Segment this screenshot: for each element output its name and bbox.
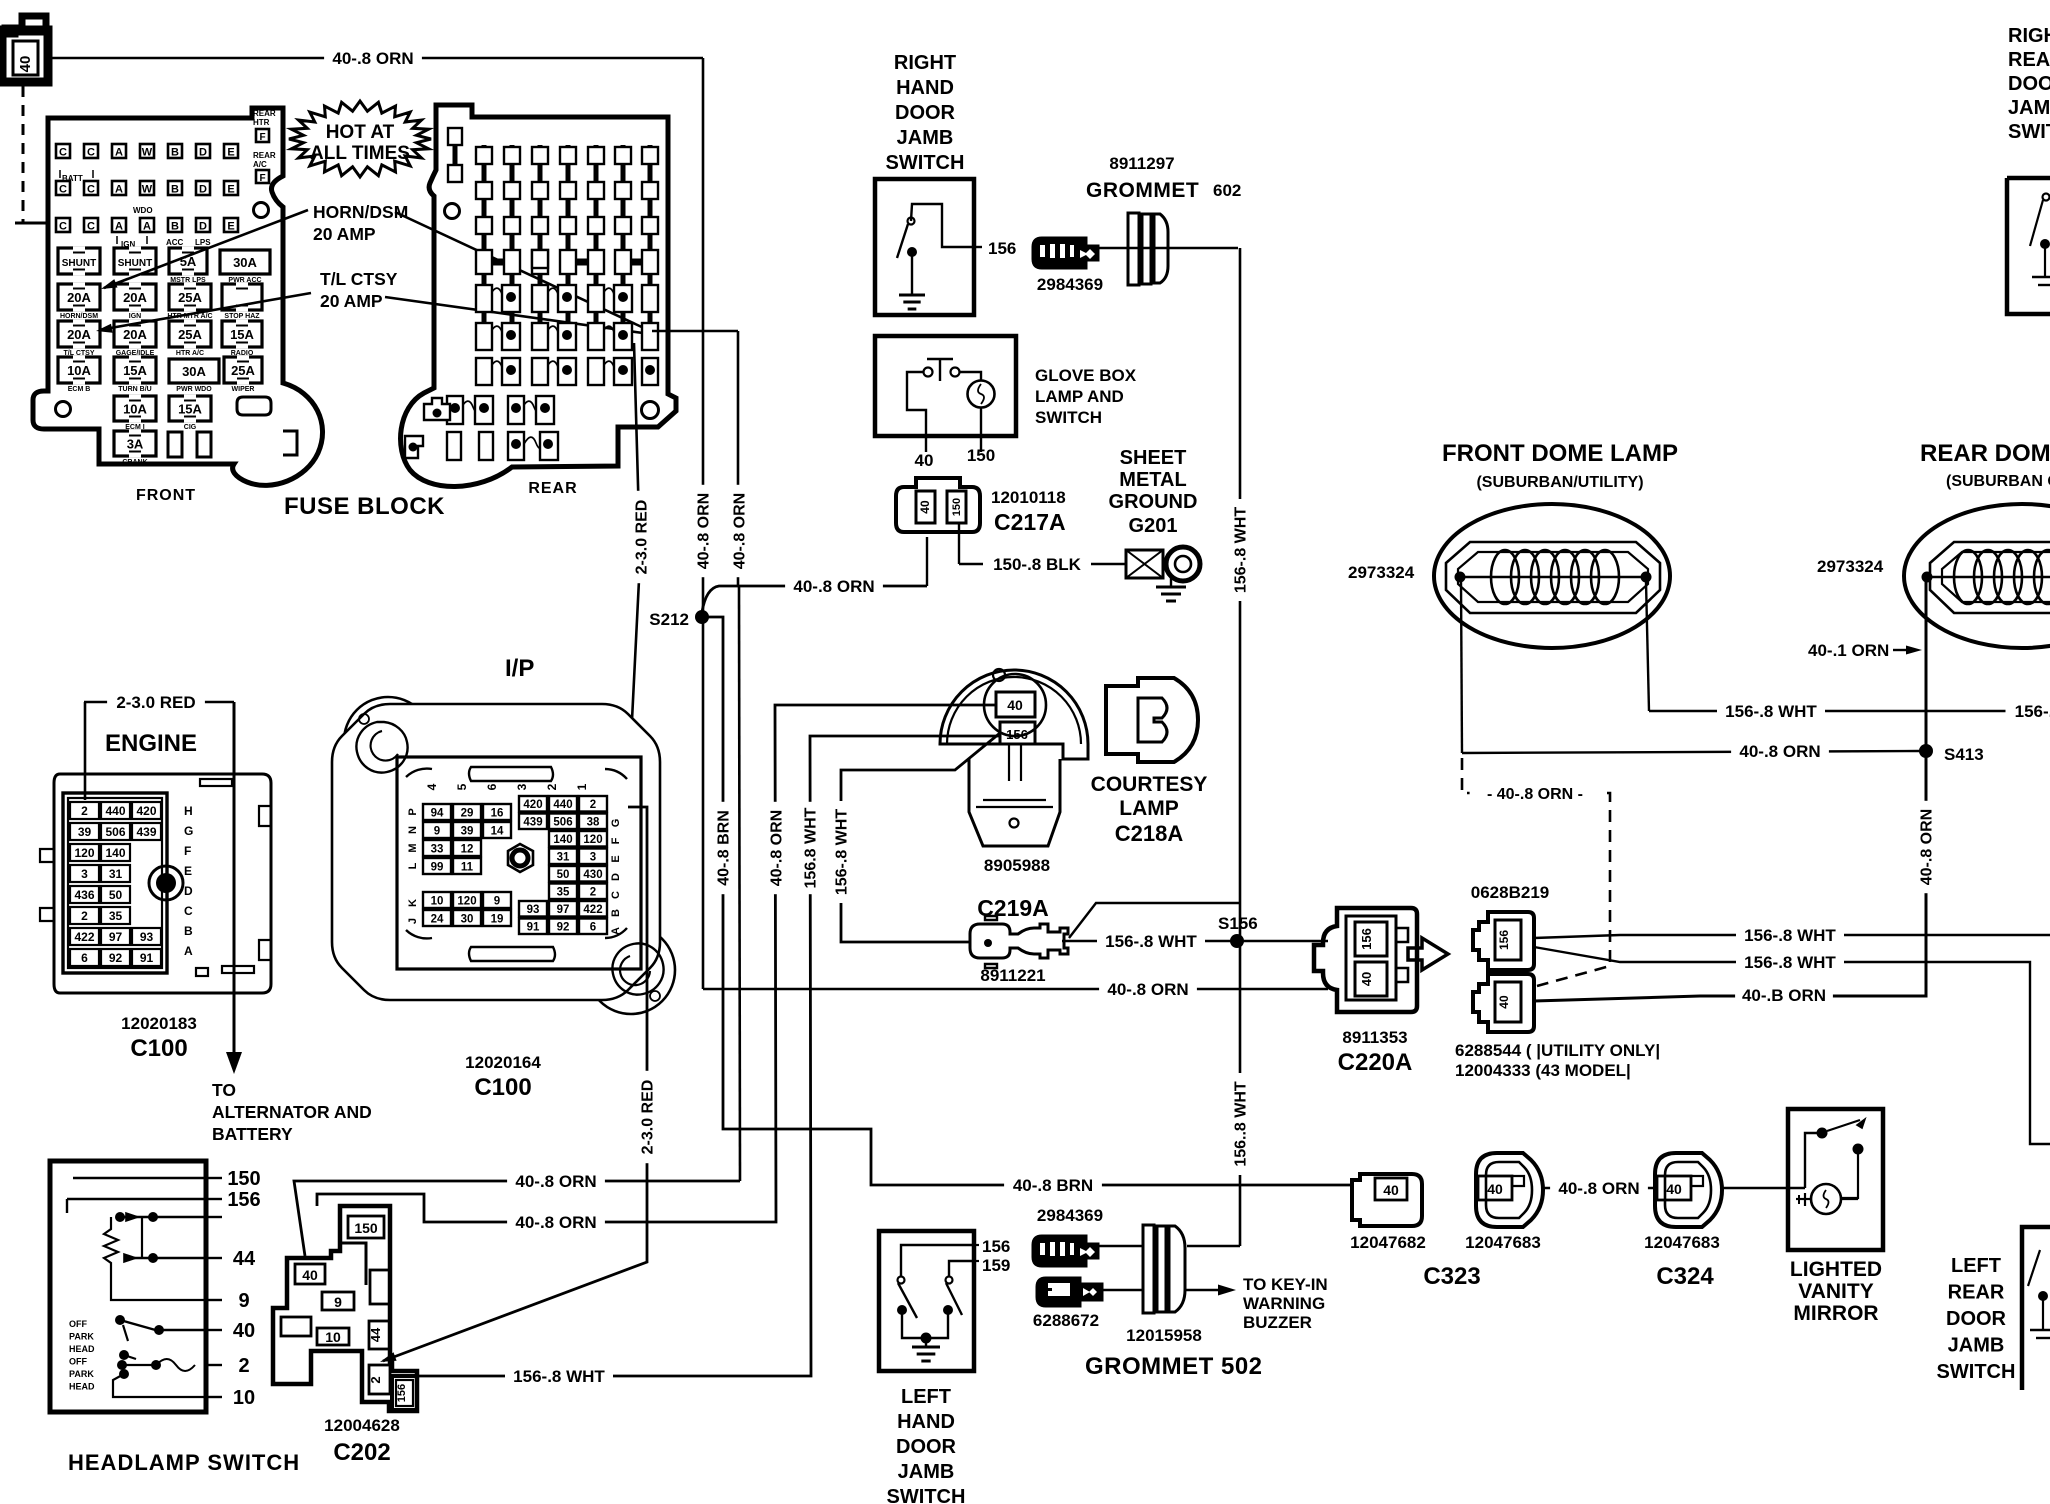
svg-text:156-.8 WHT: 156-.8 WHT: [1232, 507, 1249, 593]
grommet 502: [1143, 1225, 1185, 1313]
svg-text:156: 156: [1006, 727, 1028, 742]
svg-text:DOO: DOO: [2008, 73, 2050, 95]
svg-text:40: 40: [302, 1267, 318, 1283]
label LEFT HAND DOOR JAMB SWITCH: [887, 1386, 966, 1504]
glove box lamp and switch: [875, 336, 1016, 470]
label RIGHT REAR DOOR JAMB SWITCH (cut): [2008, 25, 2050, 143]
wire 40-.8 ORN C324 to vanity mirror: [1722, 1187, 1805, 1190]
svg-text:12015958: 12015958: [1126, 1326, 1202, 1345]
svg-text:RIGHT: RIGHT: [894, 52, 956, 74]
svg-text:CRANK: CRANK: [122, 459, 147, 466]
svg-text:40-.8 ORN: 40-.8 ORN: [332, 49, 413, 68]
svg-text:24: 24: [431, 914, 444, 926]
svg-text:HAND: HAND: [897, 1411, 955, 1433]
svg-text:33: 33: [431, 844, 444, 856]
svg-text:PWR WDO: PWR WDO: [176, 386, 212, 393]
svg-text:C217A: C217A: [994, 509, 1066, 535]
svg-text:12047683: 12047683: [1465, 1233, 1541, 1252]
svg-text:B: B: [171, 147, 179, 159]
svg-text:C: C: [184, 904, 193, 918]
svg-text:C202: C202: [333, 1439, 390, 1466]
svg-text:D: D: [184, 884, 193, 898]
connector C220A: [1314, 908, 1417, 1012]
wire 40-.8 ORN from vertical bus to C202 pin 40: [294, 1171, 740, 1256]
svg-text:REAR: REAR: [528, 480, 577, 497]
svg-text:156-.8 WHT: 156-.8 WHT: [833, 809, 850, 895]
svg-text:OFF: OFF: [69, 1319, 87, 1329]
wire 156-.8 WHT from 0628B219 to right edge: [1534, 925, 2050, 947]
wire 156-.8 WHT courtesy lamp to C219A: [831, 733, 1000, 942]
svg-text:140: 140: [553, 834, 572, 846]
svg-text:9: 9: [334, 1294, 342, 1310]
svg-text:156..8 WHT: 156..8 WHT: [1232, 1081, 1249, 1167]
svg-text:40-.8 BRN: 40-.8 BRN: [715, 810, 732, 886]
lighted vanity mirror: [1788, 1109, 1883, 1250]
connector C100 I/P pin grid: [407, 783, 622, 935]
svg-text:10: 10: [233, 1387, 255, 1409]
svg-text:420: 420: [523, 799, 542, 811]
svg-text:K: K: [407, 899, 419, 907]
svg-text:120: 120: [583, 834, 602, 846]
wire 156-.8 WHT vertical (right door circuit): [1187, 248, 1250, 1246]
svg-text:3: 3: [590, 852, 596, 864]
svg-text:B: B: [171, 184, 179, 196]
svg-text:REAR: REAR: [1948, 1282, 2005, 1304]
wire 156-.8 WHT from front dome right to edge: [1646, 582, 2050, 723]
svg-text:2: 2: [81, 909, 88, 923]
svg-text:40: 40: [918, 500, 932, 514]
svg-text:2973324: 2973324: [1817, 557, 1884, 576]
labels 6288544 (UTILITY ONLY) / 12004333 (43 MODEL): [1455, 1041, 1660, 1080]
svg-text:140: 140: [105, 846, 125, 860]
connector 40 (battery feed, top left): [2, 16, 48, 82]
svg-text:14: 14: [491, 826, 504, 838]
svg-text:8905988: 8905988: [984, 856, 1050, 875]
svg-text:99: 99: [431, 862, 444, 874]
svg-text:50: 50: [109, 888, 123, 902]
label REAR DOME (SUBURBAN ...): [1920, 440, 2050, 490]
svg-text:40-.8 ORN: 40-.8 ORN: [1739, 742, 1820, 761]
svg-text:40-.B ORN: 40-.B ORN: [1742, 986, 1826, 1005]
svg-text:C: C: [87, 221, 95, 233]
svg-text:9: 9: [238, 1290, 249, 1312]
labels 12004628 / C202: [324, 1416, 400, 1466]
svg-text:RIGH: RIGH: [2008, 25, 2050, 47]
svg-text:B: B: [610, 909, 622, 917]
svg-text:94: 94: [431, 808, 444, 820]
svg-text:REAR: REAR: [253, 109, 276, 118]
svg-text:93: 93: [140, 930, 154, 944]
svg-text:91: 91: [140, 951, 154, 965]
svg-text:HEAD: HEAD: [69, 1382, 95, 1392]
svg-text:31: 31: [109, 867, 123, 881]
svg-text:DOOR: DOOR: [896, 1436, 957, 1458]
svg-text:150-.8 BLK: 150-.8 BLK: [993, 555, 1082, 574]
svg-text:156-.8 WHT: 156-.8 WHT: [1105, 932, 1197, 951]
svg-text:SWITCH: SWITCH: [886, 152, 965, 174]
svg-text:(SUBURBAN/UTILITY): (SUBURBAN/UTILITY): [1476, 474, 1643, 491]
svg-text:G201: G201: [1129, 515, 1178, 537]
svg-text:30A: 30A: [233, 255, 257, 270]
svg-text:GROMMET: GROMMET: [1086, 179, 1199, 202]
svg-text:FUSE BLOCK: FUSE BLOCK: [284, 493, 445, 520]
svg-text:19: 19: [491, 914, 504, 926]
svg-text:44: 44: [233, 1248, 256, 1270]
svg-text:156-.8 WHT: 156-.8 WHT: [1725, 702, 1817, 721]
fuse block REAR busbars and pads: [405, 128, 658, 460]
svg-text:2-3.0 RED: 2-3.0 RED: [633, 500, 650, 575]
svg-text:35: 35: [109, 909, 123, 923]
svg-text:STOP HAZ: STOP HAZ: [224, 313, 260, 320]
svg-text:6288672: 6288672: [1033, 1311, 1099, 1330]
svg-text:D: D: [199, 184, 207, 196]
svg-text:HAND: HAND: [896, 77, 954, 99]
fuse block FRONT outline: [33, 108, 323, 485]
svg-text:E: E: [227, 184, 234, 196]
svg-text:ACC: ACC: [166, 238, 184, 247]
svg-text:8911221: 8911221: [980, 966, 1045, 985]
svg-text:11: 11: [461, 862, 474, 874]
svg-text:20A: 20A: [123, 290, 147, 305]
connector 2984369 (door wire plug): [1033, 238, 1103, 294]
svg-text:422: 422: [74, 930, 94, 944]
svg-text:WDO: WDO: [133, 206, 153, 215]
svg-text:S413: S413: [1944, 745, 1984, 764]
svg-text:2984369: 2984369: [1037, 275, 1103, 294]
svg-text:40: 40: [1007, 697, 1023, 713]
svg-text:LEFT: LEFT: [901, 1386, 951, 1408]
label 2-3.0 RED (engine harness): [84, 692, 234, 1056]
svg-text:156-.: 156-.: [2015, 702, 2050, 721]
grommet 602: [1128, 213, 1168, 285]
labels 12020183 / C100: [121, 1014, 197, 1062]
svg-text:JAM: JAM: [2008, 97, 2050, 119]
svg-text:12004628: 12004628: [324, 1416, 400, 1435]
wire 40-.8 ORN horizontal to C220A: [703, 979, 1328, 1001]
headlamp switch internals: [67, 1178, 206, 1397]
svg-text:25A: 25A: [231, 363, 255, 378]
svg-text:422: 422: [583, 904, 602, 916]
svg-text:10A: 10A: [67, 363, 91, 378]
svg-text:2: 2: [545, 783, 559, 790]
svg-text:6: 6: [81, 951, 88, 965]
svg-text:15A: 15A: [178, 402, 202, 417]
svg-text:SWITCH: SWITCH: [1035, 408, 1102, 427]
front dome lamp: [1434, 504, 1670, 648]
svg-text:C: C: [87, 147, 95, 159]
dashed drop from feed connector to fuse block: [15, 86, 48, 223]
svg-text:12020164: 12020164: [465, 1053, 541, 1072]
svg-text:IGN: IGN: [129, 313, 141, 320]
connector 0628B219 terminal 40: [1473, 974, 1534, 1032]
labels 8911297 / GROMMET 602: [1086, 154, 1241, 202]
svg-text:WIPER: WIPER: [232, 386, 255, 393]
C220A mating arrow: [1408, 938, 1448, 970]
svg-text:3: 3: [515, 783, 529, 790]
svg-text:38: 38: [587, 817, 600, 829]
svg-text:40-.8 BRN: 40-.8 BRN: [1013, 1176, 1093, 1195]
svg-text:40: 40: [915, 451, 934, 470]
svg-text:C100: C100: [130, 1035, 187, 1062]
headlamp switch position legend OFF PARK HEAD: [69, 1319, 95, 1392]
svg-text:40-.8 ORN: 40-.8 ORN: [1918, 809, 1935, 885]
svg-text:159: 159: [982, 1256, 1010, 1275]
label RIGHT HAND DOOR JAMB SWITCH: [886, 52, 965, 174]
HOT AT ALL TIMES starburst: [289, 101, 431, 177]
front dome lamp coil filament: [1455, 550, 1652, 604]
wire 156-.8 WHT from C219A to S156 and C220A: [1062, 903, 1328, 953]
svg-text:150: 150: [951, 498, 963, 516]
svg-text:PARK: PARK: [69, 1369, 94, 1379]
svg-text:C: C: [59, 184, 67, 196]
connector 6288672 (grommet 502 bottom plug): [1033, 1278, 1143, 1330]
svg-text:C: C: [610, 891, 622, 899]
svg-text:40-.1 ORN: 40-.1 ORN: [1808, 641, 1889, 660]
svg-text:HTR A/C: HTR A/C: [176, 350, 204, 357]
courtesy lamp bulb socket connector (right): [1106, 678, 1198, 762]
svg-text:BUZZER: BUZZER: [1243, 1313, 1312, 1332]
junction S156: [1218, 914, 1258, 948]
svg-text:12047683: 12047683: [1644, 1233, 1720, 1252]
svg-text:SWITCH: SWITCH: [1937, 1361, 2016, 1383]
svg-text:GROUND: GROUND: [1109, 491, 1198, 513]
labels 12020164 / C100 (I/P): [465, 1053, 541, 1101]
svg-text:15A: 15A: [230, 327, 254, 342]
svg-text:HORN/DSM: HORN/DSM: [313, 202, 408, 222]
svg-text:120: 120: [74, 846, 94, 860]
svg-text:LIGHTED: LIGHTED: [1790, 1258, 1882, 1281]
svg-text:TO: TO: [212, 1080, 236, 1100]
connector 0628B219 terminal 156: [1473, 912, 1534, 970]
svg-text:FRONT DOME LAMP: FRONT DOME LAMP: [1442, 440, 1678, 467]
svg-text:97: 97: [109, 930, 123, 944]
svg-text:DOOR: DOOR: [895, 102, 956, 124]
wire 40-.8 ORN to courtesy lamp pin 40 and down to C202 150: [317, 705, 996, 1234]
svg-text:S156: S156: [1218, 914, 1258, 933]
svg-text:39: 39: [78, 825, 92, 839]
headlamp switch terminals and labels: [206, 1168, 261, 1409]
rear dome lamp (partial): [1904, 504, 2050, 648]
svg-text:D: D: [610, 873, 622, 881]
svg-text:150: 150: [227, 1168, 260, 1190]
svg-text:430: 430: [583, 869, 602, 881]
svg-text:20A: 20A: [123, 327, 147, 342]
svg-text:2: 2: [368, 1376, 383, 1383]
svg-text:29: 29: [461, 808, 474, 820]
svg-text:SHEET: SHEET: [1120, 447, 1187, 469]
svg-text:2: 2: [590, 887, 596, 899]
svg-text:- 40-.8 ORN -: - 40-.8 ORN -: [1487, 786, 1583, 803]
right hand door jamb switch: [875, 179, 1016, 315]
label SHEET METAL GROUND G201: [1109, 447, 1198, 537]
svg-text:J: J: [407, 918, 419, 924]
svg-text:440: 440: [553, 799, 572, 811]
svg-text:JAMB: JAMB: [897, 127, 954, 149]
label TO KEY-IN WARNING BUZZER: [1243, 1275, 1328, 1332]
svg-text:15A: 15A: [123, 363, 147, 378]
svg-text:PARK: PARK: [69, 1332, 94, 1342]
svg-text:2-3.0 RED: 2-3.0 RED: [639, 1080, 656, 1155]
headlamp switch box: [50, 1161, 206, 1412]
left hand door jamb switch: [879, 1231, 1010, 1371]
svg-text:W: W: [142, 184, 153, 196]
svg-text:C100: C100: [474, 1074, 531, 1101]
svg-text:SWITCH: SWITCH: [887, 1486, 966, 1504]
connector C219A inline: [970, 895, 1068, 985]
wire 40-.8 BRN from S212 down: [702, 617, 1352, 1197]
svg-text:SHUNT: SHUNT: [62, 258, 96, 269]
connector C100 I/P side body: [332, 697, 675, 1014]
svg-text:C: C: [59, 147, 67, 159]
svg-text:REAR: REAR: [2008, 49, 2050, 71]
ground ring terminal G201: [1126, 547, 1200, 601]
svg-text:CIG: CIG: [184, 424, 197, 431]
svg-text:F: F: [259, 173, 265, 184]
svg-text:BATT: BATT: [62, 174, 83, 183]
fuse block REAR outline: [401, 105, 676, 487]
svg-text:150: 150: [967, 446, 995, 465]
svg-text:92: 92: [557, 922, 570, 934]
junction S212: [645, 609, 709, 631]
svg-text:40: 40: [233, 1320, 255, 1342]
svg-text:40: 40: [1383, 1182, 1399, 1198]
svg-text:ALTERNATOR AND: ALTERNATOR AND: [212, 1102, 372, 1122]
svg-text:HTR: HTR: [253, 118, 270, 127]
svg-text:156: 156: [1359, 928, 1374, 950]
svg-text:40-.8 ORN: 40-.8 ORN: [515, 1213, 596, 1232]
svg-text:0628B219: 0628B219: [1471, 883, 1549, 902]
svg-text:150: 150: [354, 1220, 378, 1236]
courtesy lamp socket: [969, 744, 1060, 846]
svg-text:31: 31: [557, 852, 570, 864]
svg-text:ENGINE: ENGINE: [105, 730, 197, 757]
svg-text:C220A: C220A: [1338, 1049, 1413, 1076]
wire 40-.8 ORN from feed connector to vertical bus: [49, 48, 703, 70]
svg-text:ECM B: ECM B: [68, 386, 91, 393]
svg-text:A: A: [610, 927, 622, 935]
svg-text:12020183: 12020183: [121, 1014, 197, 1033]
svg-text:439: 439: [523, 817, 542, 829]
svg-text:A: A: [115, 221, 123, 233]
svg-text:6: 6: [485, 783, 499, 790]
svg-text:D: D: [199, 147, 207, 159]
svg-text:S212: S212: [649, 610, 689, 629]
svg-text:F: F: [184, 844, 191, 858]
svg-text:506: 506: [105, 825, 125, 839]
connector C217A: [896, 478, 1066, 535]
svg-text:20 AMP: 20 AMP: [313, 224, 376, 244]
svg-text:B: B: [184, 924, 193, 938]
label T/L CTSY 20 AMP with leader arrows: [96, 269, 643, 333]
svg-text:40: 40: [1359, 972, 1374, 986]
svg-text:GROMMET 502: GROMMET 502: [1085, 1353, 1263, 1380]
svg-text:40-.8 ORN: 40-.8 ORN: [731, 493, 748, 569]
svg-text:440: 440: [105, 804, 125, 818]
svg-text:HEADLAMP SWITCH: HEADLAMP SWITCH: [68, 1450, 300, 1475]
svg-text:35: 35: [557, 887, 570, 899]
svg-text:44: 44: [368, 1327, 383, 1342]
svg-text:A: A: [184, 944, 193, 958]
label LIGHTED VANITY MIRROR: [1790, 1258, 1882, 1325]
labels 12015958 / GROMMET 502: [1085, 1326, 1263, 1380]
svg-text:156-.8 WHT: 156-.8 WHT: [513, 1367, 605, 1386]
svg-text:COURTESY: COURTESY: [1091, 773, 1208, 796]
svg-text:12047682: 12047682: [1350, 1233, 1426, 1252]
svg-text:M: M: [407, 843, 419, 852]
svg-text:2: 2: [238, 1355, 249, 1377]
svg-text:H: H: [184, 804, 193, 818]
svg-text:HEAD: HEAD: [69, 1344, 95, 1354]
svg-text:40-.8 ORN: 40-.8 ORN: [793, 577, 874, 596]
svg-text:C324: C324: [1656, 1263, 1714, 1290]
labels COURTESY LAMP C218A / 8905988: [984, 773, 1207, 875]
svg-text:P: P: [407, 808, 419, 815]
connector 12047682 (C323 plug): [1350, 1174, 1426, 1252]
svg-text:JAMB: JAMB: [898, 1461, 955, 1483]
svg-text:439: 439: [136, 825, 156, 839]
svg-text:8911353: 8911353: [1342, 1028, 1407, 1047]
connector 2984369 (grommet 502 top plug): [1033, 1206, 1143, 1266]
svg-text:16: 16: [491, 808, 504, 820]
svg-text:420: 420: [136, 804, 156, 818]
svg-text:50: 50: [557, 869, 570, 881]
svg-text:40-.8 ORN: 40-.8 ORN: [695, 493, 712, 569]
svg-text:3A: 3A: [127, 437, 144, 452]
wire 150-.8 BLK to sheet metal ground: [959, 523, 1126, 576]
svg-text:A: A: [115, 147, 123, 159]
connector 12047683 (C323 socket): [1465, 1153, 1543, 1252]
svg-text:25A: 25A: [178, 290, 202, 305]
svg-text:156: 156: [1497, 930, 1511, 950]
svg-text:B: B: [171, 221, 179, 233]
svg-text:91: 91: [527, 922, 540, 934]
wire 40-.8 ORN tap from S212 to C217A: [702, 537, 927, 612]
svg-text:6288544 ( |UTILITY ONLY|: 6288544 ( |UTILITY ONLY|: [1455, 1041, 1660, 1060]
svg-text:156: 156: [396, 1384, 408, 1402]
svg-text:LAMP: LAMP: [1119, 797, 1179, 820]
svg-text:C: C: [59, 221, 67, 233]
svg-text:MIRROR: MIRROR: [1793, 1302, 1878, 1325]
wire 2-3.0 RED from fuse block to I/P connector: [628, 343, 651, 800]
svg-text:L: L: [407, 862, 419, 869]
svg-text:20A: 20A: [67, 327, 91, 342]
svg-text:436: 436: [74, 888, 94, 902]
svg-text:156-.8 WHT: 156-.8 WHT: [1744, 953, 1836, 972]
wire 2-3.0 RED from I/P pin 2 to C202: [380, 807, 657, 1362]
fuse block FRONT fuses: [58, 247, 270, 467]
svg-text:G: G: [184, 824, 193, 838]
svg-text:LPS: LPS: [195, 238, 211, 247]
svg-text:HORN/DSM: HORN/DSM: [60, 313, 98, 320]
svg-text:10: 10: [325, 1329, 341, 1345]
svg-text:97: 97: [557, 904, 570, 916]
connector C100 engine side body: [40, 774, 271, 993]
fuse block FRONT cavity letter grid: [56, 109, 276, 249]
svg-text:156.8 WHT: 156.8 WHT: [802, 807, 819, 888]
svg-text:E: E: [227, 147, 234, 159]
vertical wire 40-.8 ORN (S212 bus) from top feed: [693, 58, 713, 989]
label FRONT DOME LAMP (SUBURBAN/UTILITY): [1442, 440, 1678, 491]
svg-text:8911297: 8911297: [1109, 154, 1174, 173]
wire 156-.8 WHT second to left rear door jamb switch: [1534, 947, 2050, 1144]
svg-text:METAL: METAL: [1119, 469, 1186, 491]
svg-text:40-.8 ORN: 40-.8 ORN: [515, 1172, 596, 1191]
label GLOVE BOX LAMP AND SWITCH: [1035, 366, 1137, 427]
right rear door jamb switch (cut at right edge): [2007, 178, 2050, 314]
svg-text:E: E: [610, 855, 622, 862]
wire 40-.8 ORN from 0628B219 to S413 riser: [1534, 751, 1936, 1007]
svg-text:(SUBURBAN O: (SUBURBAN O: [1946, 473, 2050, 490]
